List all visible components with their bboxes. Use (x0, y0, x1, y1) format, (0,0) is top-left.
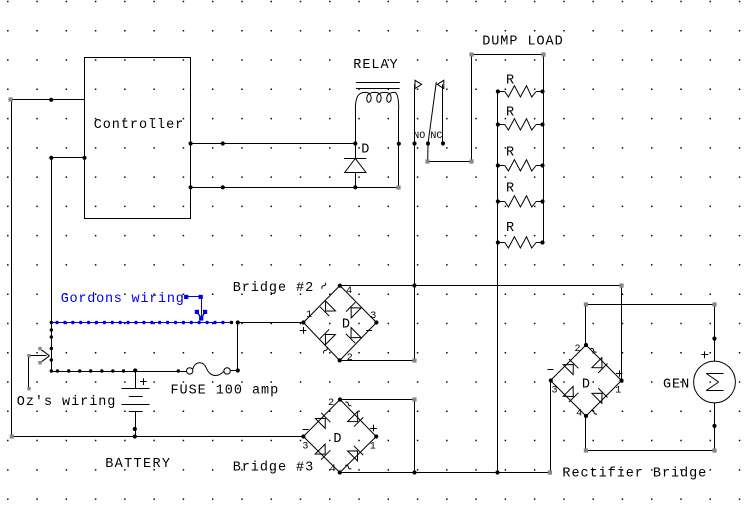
svg-text:D: D (333, 432, 342, 447)
svg-text:DUMP LOAD: DUMP LOAD (482, 35, 563, 50)
svg-text:FUSE 100 amp: FUSE 100 amp (171, 383, 280, 398)
svg-text:R: R (506, 74, 515, 89)
svg-text:BATTERY: BATTERY (105, 457, 171, 472)
svg-text:NO: NO (413, 131, 425, 142)
svg-text:GEN: GEN (663, 378, 690, 393)
svg-text:2: 2 (347, 353, 353, 364)
svg-text:Bridge #3: Bridge #3 (233, 460, 314, 475)
svg-text:D: D (582, 378, 591, 393)
svg-text:R: R (506, 106, 515, 121)
svg-text:2: 2 (575, 344, 581, 355)
svg-text:Oz's wiring: Oz's wiring (17, 395, 117, 410)
svg-text:Bridge #2: Bridge #2 (233, 281, 314, 296)
svg-text:3: 3 (302, 441, 308, 452)
svg-text:1: 1 (370, 441, 376, 452)
svg-text:NC: NC (430, 131, 442, 142)
svg-text:3: 3 (370, 311, 376, 322)
svg-text:1: 1 (615, 386, 621, 397)
svg-text:RELAY: RELAY (353, 58, 398, 73)
svg-text:D: D (342, 318, 351, 333)
svg-text:R: R (506, 145, 515, 160)
svg-text:1: 1 (306, 310, 312, 321)
svg-text:Rectifier Bridge: Rectifier Bridge (562, 466, 707, 481)
svg-text:Gordons wiring: Gordons wiring (61, 292, 185, 307)
svg-text:R: R (506, 182, 515, 197)
svg-text:3: 3 (552, 386, 558, 397)
svg-text:4: 4 (576, 408, 582, 419)
svg-text:2: 2 (328, 398, 334, 409)
svg-text:D: D (361, 143, 370, 158)
svg-text:4: 4 (330, 464, 336, 475)
svg-text:R: R (506, 221, 515, 236)
svg-text:4: 4 (346, 286, 352, 297)
svg-text:Controller: Controller (94, 118, 185, 133)
